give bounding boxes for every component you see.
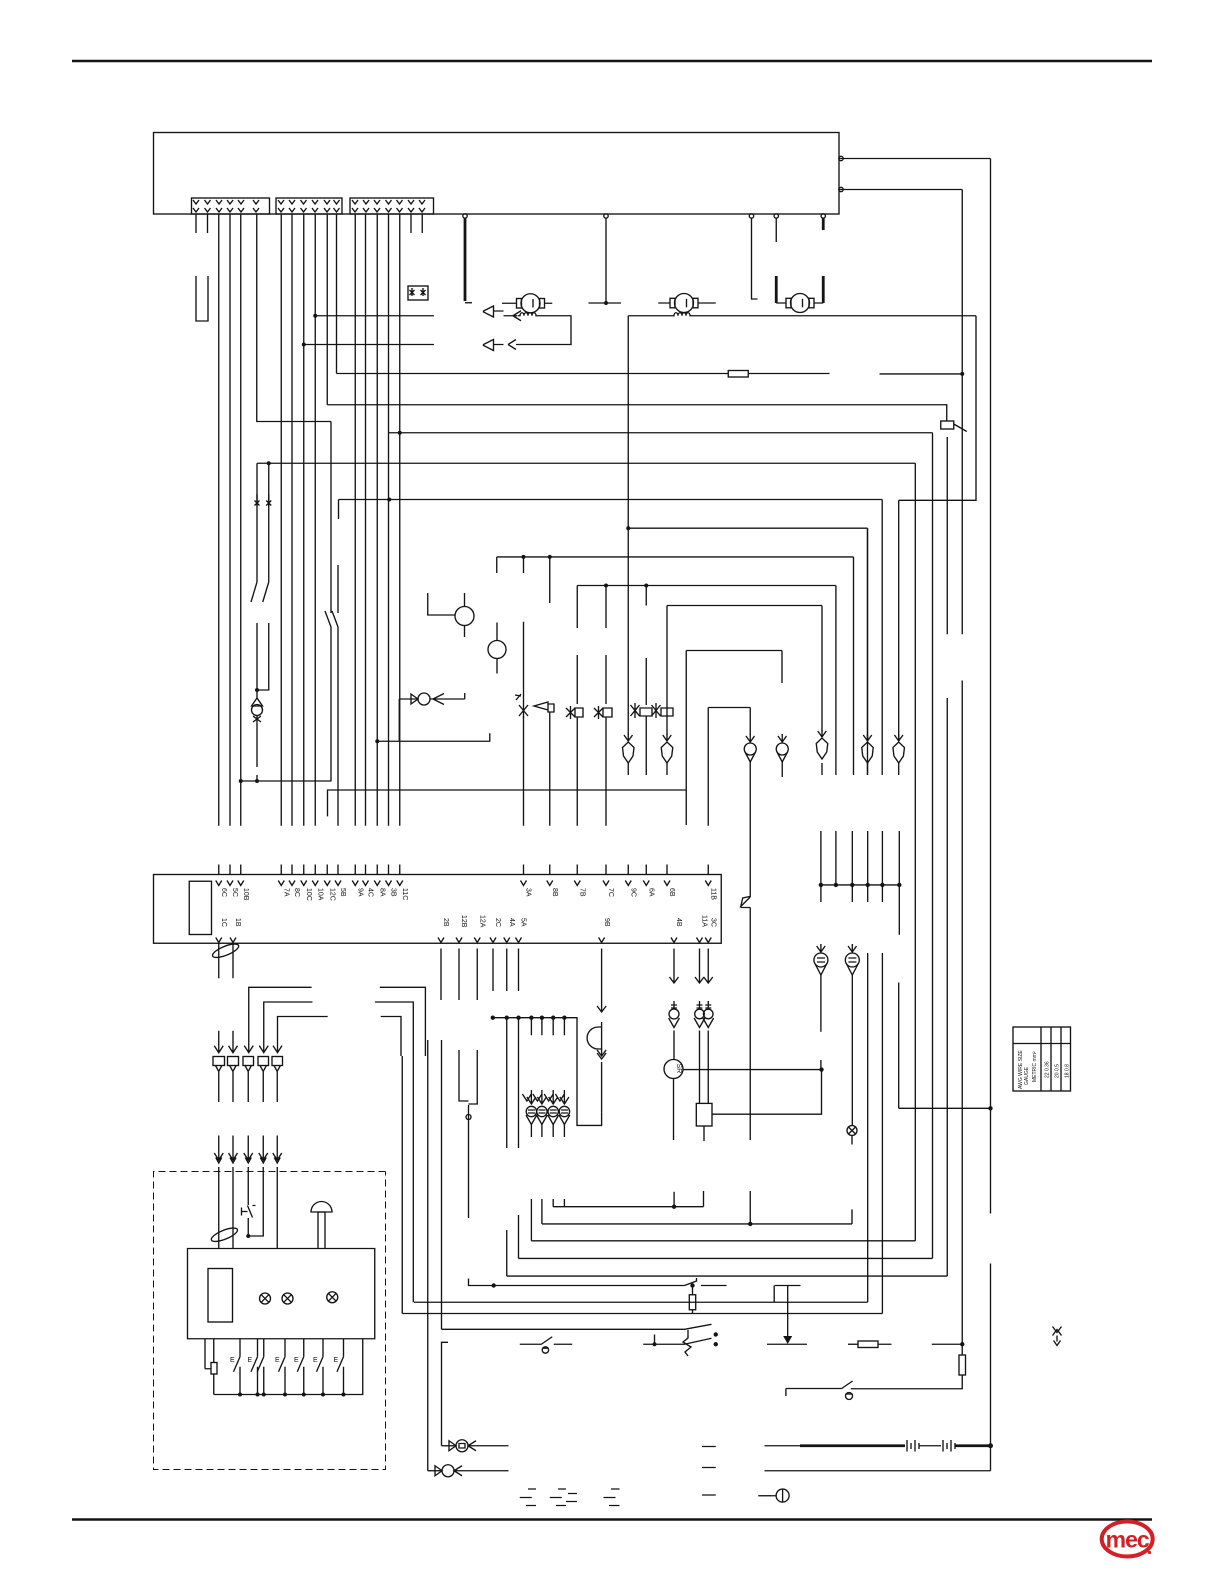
E labels (230, 1357, 339, 1364)
wire contact branch x268.75 (268, 463, 270, 582)
svg-text:4C: 4C (367, 888, 374, 897)
wire 6C vertical (218, 214, 220, 826)
SR output line (683, 1069, 822, 1071)
wire 6B below (666, 763, 668, 775)
wire contact branch x257 (256, 463, 258, 582)
battery cell bars B2 (943, 1440, 955, 1452)
junction dot wire 8A h741 (375, 739, 379, 743)
inductor coil under M2 (672, 313, 693, 316)
ground drop from h1287 (787, 1286, 789, 1338)
lower bus inside dashed box (214, 1339, 363, 1395)
bus riser x899 (898, 831, 900, 935)
wire 10C vertical (303, 214, 305, 826)
wire x947 below breaker (946, 437, 948, 1276)
node junction h316 on wire 10A (313, 314, 317, 318)
svg-text:8A: 8A (379, 888, 386, 897)
junction dot h781 wire10B (239, 779, 243, 783)
svg-text:7B: 7B (579, 888, 586, 897)
wire x268.75 lower elbow (257, 637, 269, 690)
right bus y885 (821, 884, 899, 886)
junction dot merge x257 y690 (255, 688, 259, 692)
wire size table (1013, 1027, 1071, 1091)
wire 9A vertical (354, 214, 356, 826)
svg-text:10A: 10A (317, 888, 324, 901)
svg-text:E: E (275, 1357, 280, 1364)
wire x257 stub to h781 (256, 723, 258, 781)
svg-text:E: E (334, 1357, 339, 1364)
lamp L4 (847, 1126, 857, 1136)
box right wire lower to x962 (839, 189, 962, 191)
wire x822 below (821, 763, 823, 775)
motor M2 brushes (670, 298, 675, 308)
svg-text:6A: 6A (648, 888, 655, 897)
svg-text:5A: 5A (520, 918, 527, 927)
horizontal h5 (507, 1275, 948, 1277)
teardrop T45 (817, 944, 826, 953)
wire 11C vertical (399, 214, 401, 826)
wire 12B below strip (459, 949, 469, 1102)
resistor line y1344 (848, 1343, 858, 1345)
node box right upper (839, 156, 843, 160)
svg-text:7C: 7C (607, 888, 614, 897)
wire 4A below strip (506, 949, 508, 1277)
wire 5B lower vertical (337, 637, 339, 826)
junction dot h2 x750 (748, 1222, 752, 1226)
horn switch SW2 (786, 1381, 853, 1396)
wire x441 riser tick (442, 1342, 449, 1445)
bus riser x882 (881, 831, 883, 902)
teardrop G (669, 1009, 679, 1019)
connector J2 pin chevrons (278, 200, 340, 212)
wire 12C lower stub (326, 865, 328, 875)
controller box U6 (154, 133, 840, 215)
wire 3B vertical (388, 214, 390, 826)
wires gauge B (496, 623, 498, 674)
flow arrow marks x257 x268.75 (255, 494, 272, 506)
wire 10B vertical (240, 214, 242, 826)
svg-text:9B: 9B (603, 918, 610, 927)
svg-text:5C: 5C (231, 888, 238, 897)
wire horizontal y344 left piece (304, 344, 434, 346)
wire x414 gamma B lower (412, 1056, 414, 1302)
svg-text:12C: 12C (329, 888, 336, 901)
lamp L1 (260, 1293, 271, 1304)
wire x776 thin upper (775, 218, 777, 242)
key switch wire (247, 1167, 249, 1205)
tall loop x976 to x898 (899, 316, 976, 501)
svg-text:10C: 10C (305, 888, 312, 901)
motor M1 circle (521, 294, 540, 313)
bus stubs down (531, 1018, 564, 1036)
hour meter feed (758, 1495, 771, 1497)
wire 9C below (627, 763, 629, 775)
wire 7B lower (576, 717, 578, 826)
platform control inner box (188, 1249, 375, 1339)
junction dot key (246, 1234, 250, 1238)
wire x898 drop (898, 500, 900, 739)
wire 7C lower (605, 717, 607, 826)
svg-text:2B: 2B (442, 918, 449, 927)
arrow head lower nozzle (508, 340, 516, 350)
junction dot x646 y585 (644, 584, 648, 588)
wire x867 mid (867, 528, 869, 775)
contact pair x331 x338 levers (325, 422, 338, 638)
wires inside dashed box (219, 1167, 278, 1249)
pump symbol triangle circle (256, 690, 258, 699)
junction dot h463 x268.75 (267, 461, 271, 465)
motor M2 leads (658, 302, 716, 304)
horizontal h2 (542, 1223, 852, 1225)
wire 9B below strip (597, 949, 606, 1013)
wire below gauge A (464, 626, 466, 638)
wire x606 down (605, 218, 607, 303)
wire 6B corner h605 (667, 605, 822, 607)
J1 short stub wires (196, 214, 208, 233)
long wire x990 vertical (990, 159, 992, 1471)
dp switch dot 1 (714, 1332, 718, 1336)
wire 12A below strip (469, 949, 478, 1105)
loop h650 (686, 650, 782, 652)
dp switch link vertical (654, 1335, 656, 1345)
wire above gauge A (464, 593, 466, 606)
contact lever x268.75 (263, 582, 269, 637)
long horizontal y557 (497, 556, 854, 558)
wire 3A lower (523, 716, 525, 826)
gamma wire C horizontal (278, 1017, 402, 1057)
crossed mark under pump (253, 715, 261, 723)
svg-text:22 0.36: 22 0.36 (1045, 1061, 1051, 1078)
foot tick x465 (465, 302, 472, 304)
lamp L3 (327, 1292, 338, 1303)
flow symbol F6B (663, 734, 672, 741)
junction dot SR line (819, 1067, 823, 1071)
hour meter M (776, 1489, 789, 1502)
battery group D (702, 1447, 716, 1496)
breaker CB1 (941, 421, 954, 429)
check valve symbol mid (399, 698, 418, 700)
bus dots (491, 1016, 495, 1020)
wire 11B vertical (707, 708, 709, 826)
svg-text:E: E (294, 1357, 299, 1364)
wire x331 to h781 corner (330, 637, 332, 781)
gamma wire A horizontal (249, 987, 426, 1056)
dp switch line 1 (442, 1324, 712, 1329)
lamp L2 (282, 1293, 293, 1304)
solenoid valve V6 (652, 703, 674, 718)
wire x867 lower (867, 953, 869, 1302)
strip inner rectangle (189, 881, 211, 934)
wire L into M1 circle left (428, 593, 455, 615)
bus riser x852 (851, 831, 853, 902)
teardrop row arrows (522, 1090, 569, 1104)
key switch line right (854, 1388, 856, 1390)
wire x750 mid segments with jog (741, 804, 751, 1224)
junction dot x990 y1445 (988, 1443, 993, 1448)
motor M2 circle (675, 294, 694, 313)
svg-text:7A: 7A (283, 888, 290, 897)
beacon stem (318, 1212, 325, 1249)
MEC logo (1102, 1522, 1153, 1557)
wire 3C to relay (707, 1031, 709, 1104)
top border rule (72, 60, 1152, 63)
check valve CV2 (442, 1465, 454, 1477)
wire x750 mid (749, 762, 751, 804)
connector block J3 on box bottom (350, 198, 434, 214)
wire x899 lower (898, 983, 900, 1109)
horn H1 (587, 1022, 602, 1049)
motor M1 shaft mark (532, 299, 534, 308)
svg-text:9C: 9C (630, 888, 637, 897)
bus riser x836 (835, 831, 837, 885)
node x823 on box bottom (821, 214, 825, 218)
connector J3 pin chevrons (352, 200, 425, 212)
ground control dashed enclosure (154, 1172, 386, 1470)
wire 1B resume arrow (229, 1031, 238, 1053)
svg-text:11A: 11A (701, 915, 708, 927)
svg-text:4A: 4A (508, 918, 515, 927)
wire check valve right stub up (464, 693, 466, 699)
wire x882 lower (881, 953, 883, 1314)
line h1470 left with check valve (428, 1470, 441, 1472)
companion wire elbow (262, 1167, 264, 1216)
wire x686 vertical (685, 651, 687, 826)
contact lever x257 (251, 582, 257, 637)
node on box bottom x606 (604, 214, 608, 218)
teardrop 11A (695, 1009, 705, 1019)
wire T45 below (820, 975, 822, 1032)
top terminal labels (220, 888, 717, 901)
svg-text:12A: 12A (479, 915, 486, 928)
motor M3 thick left riser (775, 276, 778, 303)
wire 2B continuation (441, 1040, 443, 1329)
bus junction dots (238, 1393, 242, 1397)
solenoid valve V5 (631, 703, 653, 718)
node x776 on box bottom (774, 214, 778, 218)
wire horizontal y790 with end stub (328, 790, 687, 816)
svg-text:3B: 3B (390, 888, 397, 897)
flow symbol F9C (624, 734, 633, 741)
wire 2B below strip (440, 949, 442, 1001)
wire 3C below strip (704, 949, 713, 984)
resistor R3 on x962 (959, 1355, 966, 1375)
inner tall rectangle (208, 1269, 233, 1323)
svg-text:2C: 2C (494, 918, 501, 927)
motor M1 leads (502, 302, 552, 304)
wire 4B below strip (670, 949, 679, 984)
svg-text:4B: 4B (675, 918, 682, 927)
svg-text:1B: 1B (234, 918, 241, 927)
small circle gauge B (488, 641, 506, 659)
svg-text:mec: mec (1106, 1527, 1150, 1553)
svg-text:E: E (230, 1357, 235, 1364)
bus riser x821 (820, 831, 822, 902)
loop ellipse marker below 1C 1B (211, 941, 240, 960)
wire x782 below (781, 762, 783, 777)
wire T45 to SR dot (820, 1060, 822, 1070)
horizontal h3 (531, 1240, 915, 1242)
svg-text:GAUGE: GAUGE (1024, 1066, 1030, 1085)
box right wire upper to x990 (839, 158, 991, 160)
junction dot x962 y1344 (960, 1342, 964, 1346)
wire x427 continuation (427, 1040, 429, 1471)
wire coil to loop corner (516, 316, 571, 345)
motor M3 thick right riser (822, 276, 825, 303)
junction dot x990 h1108 (988, 1106, 992, 1110)
wire x822 from h605 (821, 606, 823, 732)
svg-text:11B: 11B (710, 888, 717, 900)
svg-text:20 0.5: 20 0.5 (1055, 1064, 1061, 1078)
battery thick to x990 (955, 1444, 991, 1447)
wire x933 vertical (932, 433, 934, 1259)
bottom border rule (72, 1518, 1152, 1521)
bus riser x868 (867, 831, 869, 902)
battery group C (604, 1489, 620, 1506)
connector block J1 on box bottom (192, 198, 270, 214)
fuse F1 on h374 (337, 373, 729, 375)
beacon dome (311, 1202, 332, 1213)
main horizontal y316 right section (628, 315, 672, 317)
junction dot h374 x962 (960, 372, 964, 376)
svg-text:SR: SR (675, 1064, 682, 1074)
junction dot x606 y303 (604, 301, 608, 305)
long horizontal y499 (339, 500, 883, 520)
gamma arrows (244, 1046, 282, 1053)
SR relay circle (664, 1060, 683, 1079)
bottom terminal labels (220, 915, 717, 928)
teardrop symbol T782 (778, 734, 787, 742)
solenoid valve V1 bowtie (519, 703, 528, 718)
SR resume to h1 (673, 1192, 675, 1207)
wire 8C vertical (291, 214, 293, 826)
flow symbol F867 (863, 734, 872, 741)
wire 4C vertical (365, 214, 367, 826)
bus junction dots (819, 883, 823, 887)
svg-text:8B: 8B (551, 888, 558, 897)
wire 9B to plug (601, 1062, 603, 1112)
wire horizontal y781 (241, 780, 332, 782)
switch line h1287 right part (701, 1285, 801, 1287)
terminal strip TB1 (154, 875, 722, 944)
motor M3 leads (776, 302, 823, 304)
motor M1 feed segment (589, 302, 622, 304)
wire 8B lower (549, 712, 551, 826)
relay contact box K1 (408, 286, 428, 300)
teardrop T15 (848, 944, 857, 953)
long wire x962 vertical (961, 190, 963, 1345)
wire x782 stub (781, 651, 783, 684)
wire 8B upper segment (549, 557, 551, 603)
wire x402 gamma A lower (401, 1056, 403, 1314)
connector block J2 on box bottom (276, 198, 342, 214)
line h1470 right (765, 1470, 991, 1472)
lower switch line h1287 (469, 1279, 685, 1286)
long horizontal y463 (257, 462, 915, 464)
teardrop row lower stubs (531, 1125, 564, 1138)
long horizontal y432 (389, 432, 933, 434)
wire check valve left drop (398, 699, 400, 741)
resistor R2 vertical (692, 1286, 694, 1295)
junction dot h1 (672, 1205, 676, 1209)
key switch symbol (242, 1206, 256, 1218)
wire x751 down with tick (752, 218, 758, 299)
battery cell bars B1 (907, 1440, 919, 1452)
heavy wire x465 to motor bus (464, 218, 467, 301)
plug wire with ring (468, 1105, 470, 1218)
long horizontal y528 (628, 527, 867, 529)
big circle gauge A (455, 607, 474, 626)
solenoid valve V4 (594, 706, 612, 719)
svg-text:5B: 5B (339, 888, 346, 897)
J3 short stub wires (411, 214, 422, 233)
wire x853 vertical upper (853, 557, 855, 775)
junction dot resistor top (690, 1283, 694, 1287)
wire 1C below strip (218, 943, 220, 978)
wire T15 below (851, 975, 853, 1126)
horizontal h1 (553, 1206, 703, 1208)
top terminal chevrons (216, 881, 712, 886)
wire 11A to relay (699, 1031, 701, 1104)
svg-text:3A: 3A (525, 888, 532, 897)
M2 vertical from box node (749, 214, 753, 218)
teardrop resume wires (531, 1199, 564, 1241)
wire 7A vertical (280, 214, 282, 826)
wires below connector boxes (219, 1072, 278, 1102)
motor M1 brushes (517, 299, 522, 309)
ground arrow (783, 1336, 792, 1344)
junction dot x493 h1287 (492, 1283, 496, 1287)
wire 9C vertical (627, 316, 629, 735)
wire 6A segments (645, 586, 647, 776)
flow symbol F822 (818, 730, 827, 737)
motor M3 shaft mark (802, 299, 804, 308)
switch lever h1287 (685, 1278, 697, 1286)
wire 1C resume arrow (214, 1031, 223, 1053)
motor M3 brushes (786, 298, 791, 308)
E-stop switch levers (234, 1357, 344, 1395)
arrow head upper nozzle (504, 311, 522, 321)
wire x823 thick upper (822, 218, 825, 230)
loop h707 (708, 707, 750, 709)
junction dot x549 y557 (548, 555, 552, 559)
wire x915 vertical (914, 463, 916, 1241)
wire x256 long (257, 214, 331, 422)
wire x821 down to relay feed (712, 1070, 822, 1115)
lower bus y1018 (493, 1018, 602, 1126)
relay coil box K2 (696, 1103, 712, 1126)
loop ellipse marker inside box (210, 1225, 239, 1244)
wire 11A below strip (695, 949, 704, 984)
horn valve V2 (534, 702, 554, 712)
svg-text:3C: 3C (710, 918, 717, 927)
horn nozzle symbol upper (484, 306, 504, 317)
mechanical link zigzag (683, 1330, 691, 1356)
dp switch dot 2 (714, 1342, 718, 1346)
wire horizontal y316 left piece (315, 315, 434, 317)
check valve CV1 (456, 1440, 468, 1452)
flow symbol F899 (894, 734, 903, 741)
junction dot x628 y528 (626, 526, 630, 530)
teardrop row bodies (526, 1106, 570, 1124)
junction dot h781 x257 (255, 779, 259, 783)
svg-text:6C: 6C (220, 888, 227, 897)
contact marks in K1 (410, 288, 426, 296)
horn nozzle symbol lower (484, 340, 504, 351)
svg-text:E: E (248, 1357, 253, 1364)
wire x867 vertical upper (867, 528, 869, 775)
SR below wire (673, 1079, 675, 1141)
relay below wire (703, 1126, 705, 1141)
horizontal h4 (518, 1257, 932, 1259)
